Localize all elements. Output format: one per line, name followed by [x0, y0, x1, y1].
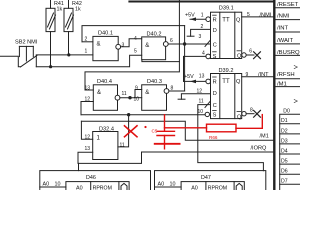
svg-text:C: C — [213, 103, 217, 109]
svg-text:11: 11 — [199, 98, 204, 104]
svg-text:D46: D46 — [86, 175, 96, 181]
svg-text:S: S — [213, 113, 217, 119]
svg-text:TT: TT — [222, 79, 230, 85]
wire top feedback to D40.1 pin2 — [82, 26, 185, 42]
red annotation: deleted wire X — [125, 126, 138, 137]
svg-text:1: 1 — [201, 12, 204, 18]
svg-text:Q: Q — [236, 17, 241, 23]
svg-text:/IORQ: /IORQ — [251, 146, 267, 152]
gate D40.1 — [85, 31, 125, 61]
svg-text:&: & — [97, 42, 101, 48]
chip D47 ROM — [155, 171, 266, 193]
svg-text:3: 3 — [122, 42, 125, 48]
resistor R41 — [46, 0, 64, 67]
wire D32.4 out up to S net (cancelled) — [118, 115, 129, 147]
wire C-net vertical — [184, 26, 186, 91]
resistor R42 — [64, 0, 82, 55]
svg-text:3: 3 — [199, 34, 202, 40]
svg-text:6: 6 — [170, 38, 173, 44]
svg-text:A0: A0 — [76, 185, 83, 190]
svg-text:D40.3: D40.3 — [147, 79, 162, 85]
svg-text:SB2 NMI: SB2 NMI — [15, 40, 38, 46]
svg-text:5: 5 — [134, 49, 137, 55]
pin 13 R with +5V arrow — [184, 73, 211, 83]
chip D46 ROM — [40, 171, 151, 193]
data bus connector box — [280, 114, 300, 190]
svg-text:12: 12 — [85, 134, 91, 140]
svg-text:A0: A0 — [191, 185, 198, 190]
red dot — [144, 126, 146, 128]
svg-text:10: 10 — [134, 97, 140, 103]
svg-text:RPROM: RPROM — [208, 185, 227, 190]
wire D40.4 out to D40.3 inputs — [120, 90, 142, 98]
pin 3 C dynamic input — [199, 34, 211, 47]
svg-text:R: R — [213, 18, 217, 24]
connector rows right — [276, 2, 301, 115]
svg-text:/INT: /INT — [277, 26, 289, 32]
pin 5 Q output /NMI — [242, 12, 274, 18]
svg-text:1: 1 — [85, 49, 88, 55]
svg-text:/WAIT: /WAIT — [277, 38, 294, 44]
wire NMI lower net — [36, 55, 141, 66]
svg-text:/NMI: /NMI — [277, 14, 290, 20]
svg-text:D39.1: D39.1 — [219, 6, 234, 12]
svg-text:4: 4 — [134, 36, 137, 42]
wire D40.2 out to C net — [168, 43, 210, 45]
pin 8 Qbar with X — [242, 108, 261, 118]
pin 10 S input — [198, 109, 210, 117]
svg-text:&: & — [145, 43, 149, 49]
wire D40.1 out to D40.2 pin4 — [121, 39, 142, 47]
svg-text:8: 8 — [171, 85, 174, 91]
node C-net junction — [183, 42, 186, 45]
red capacitor C5 — [155, 115, 180, 149]
gate D40.4 — [85, 79, 127, 111]
svg-text:8: 8 — [250, 108, 253, 114]
pin 4 S to +5V — [184, 50, 211, 81]
svg-text:/RFSH: /RFSH — [277, 72, 295, 78]
flip-flop D39.1 — [211, 6, 243, 61]
svg-text:/M1: /M1 — [260, 134, 269, 140]
wire pin13 net into D46 — [78, 163, 80, 170]
node R42 junction — [67, 53, 70, 56]
svg-text:Q: Q — [236, 79, 241, 85]
svg-text:R: R — [213, 80, 217, 86]
svg-text:>: > — [294, 62, 299, 71]
svg-text:TT: TT — [222, 18, 230, 24]
svg-text:D: D — [213, 28, 217, 34]
svg-text:13: 13 — [85, 85, 91, 91]
pin 11 C dynamic input — [198, 98, 264, 170]
svg-text:/NMI: /NMI — [260, 12, 272, 18]
gate D40.2 — [134, 31, 173, 59]
svg-text:D40.4: D40.4 — [97, 79, 112, 85]
svg-text:S: S — [213, 54, 217, 60]
svg-text:13: 13 — [199, 73, 205, 79]
wire M1 lower long — [81, 121, 92, 139]
wire D32.4 pin13 from IORQ — [78, 152, 274, 163]
svg-text:Q: Q — [237, 54, 242, 60]
svg-text:RPROM: RPROM — [93, 185, 112, 190]
svg-text:13: 13 — [85, 146, 91, 152]
svg-text:6: 6 — [249, 49, 252, 55]
wire pin5 feed from top — [142, 0, 180, 62]
wire NMI common left — [0, 56, 21, 66]
svg-text:11: 11 — [122, 91, 127, 97]
svg-text:/INT: /INT — [258, 72, 269, 78]
svg-text:&: & — [145, 90, 149, 96]
svg-text:1k: 1k — [75, 7, 81, 13]
pin 9 Q output /INT — [242, 72, 274, 78]
svg-text:+5V: +5V — [184, 74, 194, 80]
svg-text:D47: D47 — [201, 175, 211, 181]
svg-text:>: > — [294, 96, 299, 105]
svg-text:9: 9 — [135, 85, 138, 91]
pin 6 Qbar with X — [242, 49, 261, 59]
svg-text:1: 1 — [97, 136, 101, 142]
svg-text:C: C — [213, 42, 217, 48]
wire D40.4 pin12 feed from S net — [81, 102, 93, 115]
svg-text:D: D — [213, 91, 217, 97]
svg-text:Q: Q — [237, 114, 242, 120]
wire D40.1 pin2 feed — [82, 41, 93, 43]
node R41 junction — [49, 65, 52, 68]
wire D40.3 out to C-net vertical — [169, 90, 185, 92]
flip-flop D39.2 — [211, 68, 243, 121]
svg-text:4: 4 — [202, 50, 205, 56]
svg-text:11: 11 — [120, 143, 125, 149]
pin 2 D grounded stub — [187, 24, 210, 36]
svg-text:C5: C5 — [152, 129, 158, 134]
bus cable line — [273, 0, 275, 190]
svg-text:&: & — [97, 90, 101, 96]
red resistor R66 — [165, 115, 263, 132]
svg-text:/BUSRQ: /BUSRQ — [277, 50, 300, 56]
gate D32.4 — [85, 126, 125, 159]
svg-text:/RESET: /RESET — [277, 2, 299, 8]
node S net junction — [127, 113, 130, 116]
wire NMI upper net — [36, 54, 93, 56]
pin 1 R with +5V arrow — [185, 12, 211, 21]
node D40.4 out junction — [128, 96, 131, 99]
svg-text:+5V: +5V — [185, 13, 195, 19]
switch SB2 NMI — [15, 40, 38, 67]
gate D40.3 — [134, 79, 174, 111]
wire S net horizontal — [81, 114, 205, 116]
svg-text:D39.2: D39.2 — [219, 68, 234, 74]
svg-text:1k: 1k — [57, 7, 63, 13]
wire staircase to lower cross-couple — [85, 62, 179, 90]
svg-text:10: 10 — [198, 109, 204, 115]
svg-text:R66: R66 — [209, 135, 218, 140]
svg-text:D40.1: D40.1 — [98, 31, 113, 37]
pin 12 D grounded stub — [178, 89, 210, 100]
wire /RESET top — [129, 1, 273, 3]
